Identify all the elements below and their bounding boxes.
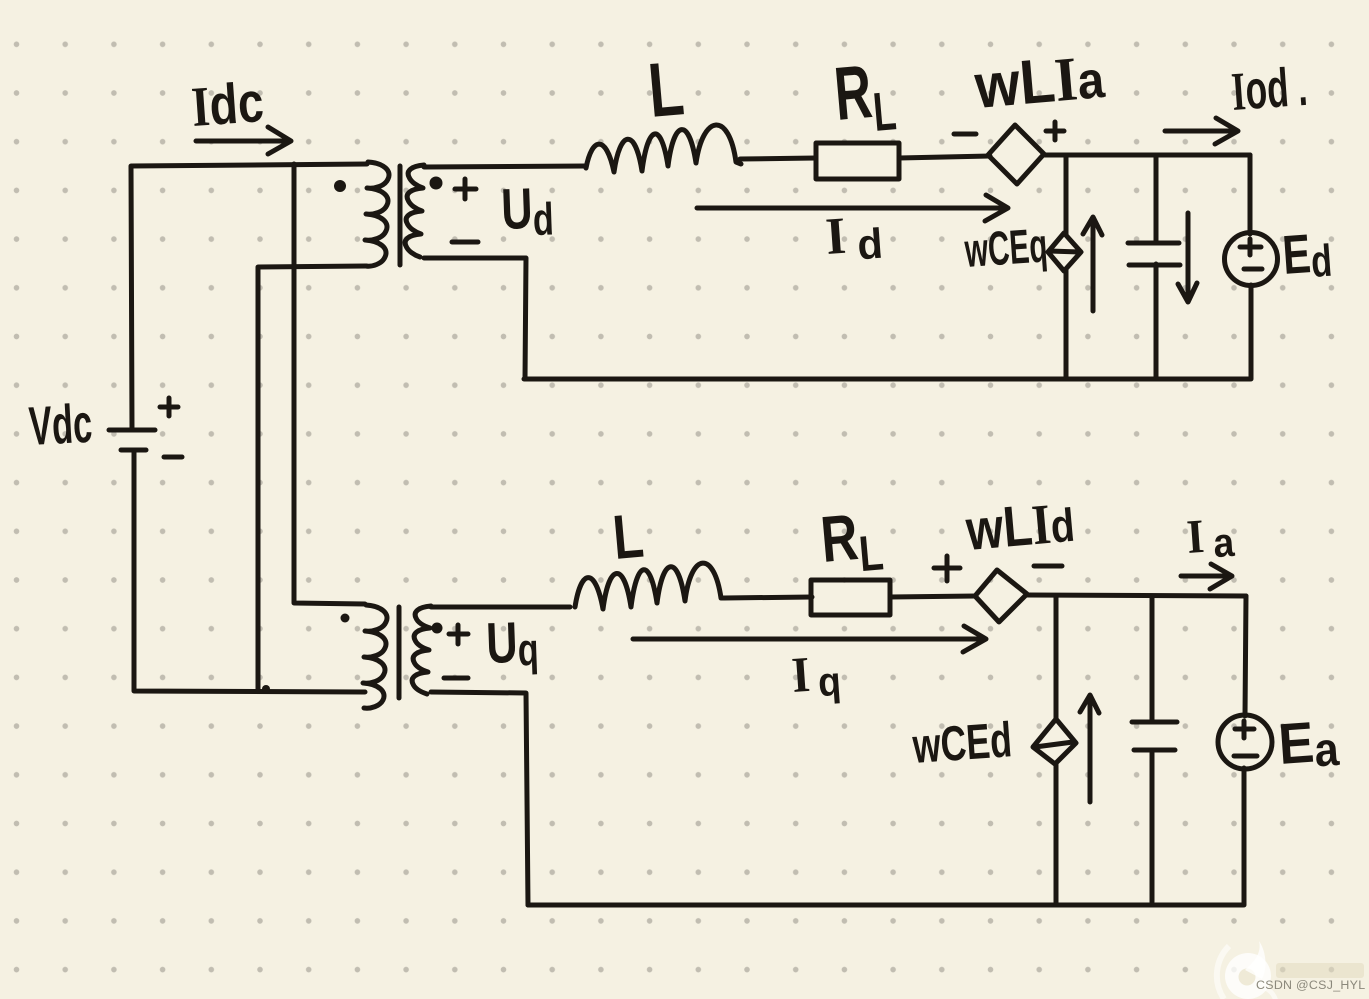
wire T2 secondary top to inductor [431, 605, 570, 610]
diamond minus sign (top) [954, 132, 976, 137]
arrow Idc [196, 127, 291, 154]
inductor L (bottom) [575, 563, 724, 609]
wire resistor to diamond (bottom) [890, 596, 976, 597]
watermark flame logo [1217, 941, 1276, 999]
wire T1 secondary bottom down to rail [424, 258, 526, 379]
wire diamond to Ea branch (bottom node wire) [1027, 595, 1246, 596]
transformer T1 secondary winding [405, 165, 424, 257]
label Ud plus sign [455, 179, 476, 199]
wire top circuit bottom rail [524, 377, 1250, 382]
Ea minus sign [1234, 754, 1257, 759]
dependent current source wCEq diamond [1048, 233, 1081, 271]
transformer T2 primary winding [363, 605, 387, 708]
arrow up beside wCEd [1080, 695, 1099, 802]
wire resistor to diamond [899, 156, 990, 158]
watermark faint text blocks [1276, 963, 1364, 978]
transformer T2 core [397, 607, 402, 698]
wire inductor to resistor [740, 158, 816, 159]
wire diamond to Ed branch (top node wire) [1044, 153, 1250, 158]
transformer T2 secondary polarity dot [432, 623, 443, 634]
svg-text:wLId: wLId [963, 490, 1077, 563]
transformer T1 primary polarity dot [334, 180, 346, 192]
wire T1 primary bottom down [258, 266, 366, 689]
wire battery bottom rail [134, 452, 365, 692]
junction dot [262, 685, 270, 693]
label Uq plus sign [449, 625, 468, 644]
Ea plus sign [1235, 721, 1254, 738]
diamond plus sign (bottom) [934, 556, 960, 581]
resistor RL (top) [816, 143, 899, 179]
Ed minus sign [1244, 267, 1262, 272]
battery minus sign [164, 455, 182, 460]
capacitor plates (top) [1128, 243, 1180, 265]
wCEq diamond divider [1049, 251, 1080, 252]
resistor RL (bottom) [811, 580, 890, 615]
capacitor branch (top) [1154, 155, 1159, 379]
dependent current source wCEd diamond [1033, 719, 1076, 764]
arrow down beside capacitor (top) [1178, 213, 1197, 302]
svg-text:CSDN @CSJ_HYL: CSDN @CSJ_HYL [1256, 978, 1365, 992]
wire bottom circuit bottom rail [528, 903, 1243, 908]
wire top rail down to T2 primary top [294, 164, 365, 604]
svg-text:wCEd: wCEd [910, 713, 1014, 775]
voltage source Ea [1244, 596, 1246, 905]
capacitor branch (bottom) [1150, 596, 1155, 902]
dependent current source wCEd branch wire [1054, 596, 1059, 905]
svg-text:L: L [645, 46, 687, 134]
label Uq minus sign [444, 676, 468, 681]
inductor L (top) [586, 125, 741, 172]
voltage source Ed [1250, 155, 1251, 379]
transformer T2 secondary winding [412, 606, 431, 694]
wire battery top to transformer T1 [131, 164, 367, 430]
transformer T1 primary winding [365, 162, 389, 266]
dependent source wLIq diamond (top) [988, 125, 1044, 184]
arrow Ia [1181, 564, 1232, 589]
battery plus sign [160, 398, 178, 416]
svg-text:L: L [610, 500, 646, 572]
svg-text:Vdc: Vdc [27, 393, 93, 457]
arrow Iq [633, 626, 986, 652]
Ed plus sign [1240, 239, 1261, 255]
dependent current source wCEq branch wire [1064, 155, 1069, 379]
transformer T1 secondary polarity dot [430, 177, 443, 190]
transformer T2 primary polarity dot [341, 614, 350, 623]
diamond plus sign (top) [1046, 122, 1064, 140]
wire inductor to resistor (bottom) [724, 597, 812, 598]
svg-text:Iod .: Iod . [1230, 55, 1310, 122]
transformer T1 core [398, 166, 403, 265]
battery Vdc [109, 430, 155, 450]
svg-text:Idc: Idc [189, 70, 265, 140]
svg-text:wLIa: wLIa [971, 41, 1108, 122]
svg-text:wCEq: wCEq [962, 219, 1049, 278]
arrow Iod [1165, 118, 1238, 144]
wire T2 secondary bottom down to rail [431, 692, 528, 905]
arrow up beside wCEq [1083, 217, 1102, 311]
label Ud minus sign [452, 240, 478, 245]
wCEd diamond inner stroke [1035, 742, 1073, 747]
arrow Id [697, 195, 1008, 221]
capacitor plates (bottom) [1132, 722, 1177, 750]
dependent source wLId diamond (bottom) [975, 570, 1027, 622]
diamond minus sign (bottom) [1034, 564, 1062, 569]
wire T1 secondary top to inductor [424, 166, 586, 167]
